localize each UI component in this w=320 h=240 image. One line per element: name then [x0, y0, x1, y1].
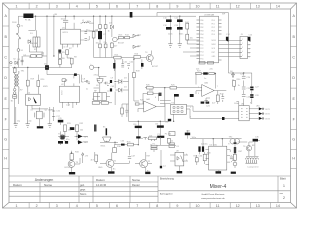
wire U2 bottom stubs	[63, 102, 77, 108]
transistor Q3 circle	[60, 135, 65, 140]
opto U4 led	[29, 97, 31, 101]
wire C-row	[23, 16, 54, 74]
wire amp right pins	[227, 150, 232, 163]
svg-text:PB1: PB1	[200, 23, 203, 25]
capacitor C47	[128, 157, 131, 159]
wire mcu right to connector	[219, 41, 241, 57]
wire U1 right	[81, 31, 99, 40]
wire staircase to U6	[186, 106, 238, 118]
fuse F1 body	[23, 14, 33, 19]
svg-text:4: 4	[249, 53, 250, 55]
svg-text:10: 10	[196, 4, 200, 8]
wire mcu loop rail	[157, 13, 228, 74]
wire rail D	[12, 67, 72, 70]
svg-text:PC2: PC2	[200, 48, 203, 50]
wire mains chain	[17, 16, 19, 67]
connector circle mains a	[17, 24, 20, 27]
resistor R11	[99, 44, 102, 48]
svg-text:10k: 10k	[149, 135, 152, 137]
diode D2	[110, 25, 113, 29]
wire U1 top feeds	[66, 16, 75, 29]
svg-text:10k: 10k	[80, 129, 83, 131]
svg-text:C32: C32	[165, 122, 168, 124]
svg-text:F1 2A: F1 2A	[25, 18, 31, 21]
svg-text:1k: 1k	[108, 31, 110, 33]
dark vbar x95	[94, 125, 97, 132]
svg-text:C: C	[292, 56, 295, 60]
resistor R7	[66, 50, 69, 55]
svg-text:C: C	[4, 56, 7, 60]
svg-text:3: 3	[56, 4, 58, 8]
wire T2	[135, 150, 161, 172]
wire x115 trunk	[115, 60, 118, 105]
svg-text:22u: 22u	[104, 42, 107, 44]
capacitor C42 pair	[127, 64, 130, 69]
capacitor C6	[85, 32, 88, 34]
diode D8	[15, 61, 18, 65]
svg-text:U3 MEGA8: U3 MEGA8	[204, 13, 215, 16]
svg-text:4: 4	[76, 4, 78, 8]
svg-text:100n: 100n	[168, 34, 172, 36]
svg-text:+UB: +UB	[53, 14, 58, 16]
svg-text:5: 5	[96, 4, 98, 8]
wire x93 column	[93, 16, 95, 57]
svg-text:47n: 47n	[66, 139, 69, 141]
svg-text:G: G	[292, 138, 295, 142]
transistor T2	[140, 160, 148, 168]
frame corner chamfers	[3, 3, 297, 208]
filter box G inner	[98, 93, 102, 101]
capacitor C36 body	[198, 146, 200, 151]
dark bar between resistors	[70, 127, 75, 130]
resistor R43	[186, 34, 189, 40]
svg-text:1N4148: 1N4148	[30, 43, 38, 45]
svg-text:14.10.36: 14.10.36	[96, 183, 107, 187]
wire L1	[81, 22, 94, 24]
wire rail F	[129, 105, 170, 126]
svg-text:4: 4	[242, 51, 243, 53]
resistor R30	[233, 81, 236, 87]
svg-text:Auftraggeber: Auftraggeber	[160, 193, 173, 196]
svg-text:1n: 1n	[204, 78, 206, 80]
transformer dark bar	[234, 147, 236, 153]
grid column tick marks bottom	[29, 203, 270, 209]
svg-text:OUT3: OUT3	[265, 118, 270, 120]
svg-text:2: 2	[36, 4, 38, 8]
svg-text:out: out	[163, 165, 166, 168]
svg-text:10: 10	[196, 204, 200, 208]
pot dark bar a	[136, 136, 140, 138]
svg-text:Reuter: Reuter	[132, 183, 140, 187]
svg-text:U5 TDA: U5 TDA	[210, 143, 218, 146]
ic U6 box	[239, 106, 249, 121]
connector fork E4	[133, 45, 139, 48]
svg-text:PC0: PC0	[200, 41, 203, 43]
resistor R28 fb	[209, 72, 214, 74]
diode D1	[28, 40, 31, 44]
wire Q2 stubs	[150, 51, 152, 66]
svg-text:2: 2	[242, 43, 243, 45]
resistor R19	[26, 80, 29, 86]
mcu U3 pin stubs left	[197, 20, 200, 59]
wire elcap E area	[93, 68, 106, 93]
svg-text:6: 6	[116, 4, 118, 8]
svg-text:G: G	[4, 138, 7, 142]
svg-text:Lautsprecher: Lautsprecher	[248, 166, 259, 169]
pot marks	[143, 138, 154, 141]
regulator U1 box	[60, 29, 80, 44]
svg-text:5: 5	[186, 160, 187, 162]
wire x105 column	[105, 16, 107, 57]
dark cap pair x251 b	[250, 94, 253, 96]
svg-text:D: D	[292, 76, 295, 80]
ground sym g3	[48, 124, 52, 127]
resistor R4b	[37, 55, 42, 58]
svg-text:5: 5	[96, 204, 98, 208]
wire cap stems F	[138, 128, 160, 145]
svg-text:6: 6	[116, 204, 118, 208]
resistor R13 h	[118, 36, 123, 38]
svg-text:PD1: PD1	[212, 23, 215, 25]
capacitor C5	[85, 39, 88, 41]
wire speaker stems	[235, 156, 248, 168]
svg-text:22k: 22k	[196, 69, 199, 71]
capacitor C23 plate	[174, 94, 179, 97]
capacitor C31 plate	[157, 125, 164, 127]
resistor R31	[63, 125, 66, 131]
signal arrow S1	[78, 134, 83, 138]
capacitor C17 h	[52, 116, 55, 118]
capacitor C7 body	[98, 31, 102, 39]
svg-text:2: 2	[198, 87, 199, 89]
svg-text:PC4: PC4	[200, 55, 203, 57]
svg-text:Tr: Tr	[228, 144, 230, 146]
svg-text:PB0: PB0	[200, 20, 203, 22]
svg-text:PD2: PD2	[212, 27, 215, 29]
switch circles	[17, 33, 18, 34]
op-amp OA1	[144, 101, 157, 112]
svg-text:11: 11	[216, 4, 220, 8]
dark bar x58 top	[58, 120, 64, 123]
wire resistor row under box	[92, 102, 112, 104]
svg-text:7: 7	[136, 4, 138, 8]
svg-text:2: 2	[249, 45, 250, 47]
ic U6 inner marks	[241, 109, 248, 117]
TR2 arrow	[234, 142, 237, 144]
capacitor C2	[63, 20, 68, 22]
svg-text:D: D	[4, 76, 7, 80]
wire opto bottom	[28, 105, 48, 123]
dark blob x161	[160, 166, 162, 169]
svg-text:1: 1	[249, 41, 250, 43]
svg-text:Q1 16MHz: Q1 16MHz	[45, 110, 55, 112]
svg-text:PB4: PB4	[200, 34, 203, 36]
wire T3	[72, 151, 97, 172]
transistor Q2 innards	[148, 56, 151, 61]
wire cap cluster feeds	[170, 16, 179, 44]
led arrow A1	[259, 107, 262, 110]
capacitor C20 plate	[203, 72, 208, 74]
connector fork E3	[133, 34, 139, 37]
resistor R41 h	[92, 102, 99, 105]
capacitor C35 plate	[253, 139, 258, 142]
transistor Q1	[113, 37, 118, 42]
wire U1 bottom stubs	[62, 44, 77, 49]
opto U8 box	[175, 152, 184, 166]
wire U1 resistor column	[60, 55, 72, 68]
transformer TR2 a	[230, 139, 235, 144]
wire opamp1	[134, 88, 165, 112]
wire crystal area	[16, 105, 54, 126]
wire mic1	[100, 141, 138, 145]
ground bar speaker	[231, 172, 236, 174]
svg-text:3: 3	[56, 204, 58, 208]
svg-text:2: 2	[283, 196, 285, 200]
svg-text:1 2 3: 1 2 3	[66, 105, 70, 107]
transistor T1 innards	[108, 160, 111, 166]
svg-text:2x100u: 2x100u	[201, 143, 208, 145]
svg-text:7: 7	[136, 204, 138, 208]
svg-text:2x: 2x	[86, 89, 88, 91]
svg-text:RST: RST	[212, 52, 215, 54]
svg-text:470u: 470u	[94, 75, 98, 77]
svg-text:9: 9	[176, 4, 178, 8]
wire below-rail caps	[114, 59, 142, 101]
capacitor C34 plate	[185, 133, 190, 136]
connector J3 box	[240, 37, 248, 59]
wire mic trapezoid D	[97, 81, 110, 84]
diode bridge marks	[13, 95, 17, 98]
svg-text:Name: Name	[132, 178, 140, 182]
title block texts	[13, 177, 286, 201]
svg-text:PC1: PC1	[200, 44, 203, 46]
out circles U6	[262, 108, 264, 110]
wire amp rail	[190, 139, 242, 147]
connector circle C	[10, 62, 12, 64]
svg-text:1: 1	[283, 184, 285, 188]
capacitor C22 plate	[190, 94, 194, 97]
svg-text:GmbH Praxis Electronic: GmbH Praxis Electronic	[201, 193, 225, 196]
svg-text:22k: 22k	[210, 69, 213, 71]
svg-text:1: 1	[16, 204, 18, 208]
svg-text:MOSI: MOSI	[212, 40, 217, 42]
transistor Q4	[246, 146, 251, 151]
svg-text:22p: 22p	[17, 121, 20, 123]
svg-text:BC547: BC547	[118, 42, 125, 44]
svg-text:2: 2	[190, 116, 191, 118]
wire relay G box	[160, 96, 174, 121]
capacitor C32 plate	[168, 119, 171, 122]
transformer TR2 b	[234, 139, 239, 144]
resistor R29	[216, 95, 219, 102]
resistor R32	[75, 125, 78, 131]
resistor R25 series	[170, 86, 177, 89]
regulator U2 box	[60, 86, 80, 102]
wire transformer chain	[14, 73, 16, 124]
capacitor C13 plate	[177, 27, 183, 30]
capacitor C45 pair	[242, 87, 246, 89]
svg-text:100n: 100n	[61, 18, 65, 20]
capacitor C46 pair	[242, 95, 246, 99]
wire opamp2 out	[206, 91, 226, 105]
svg-text:13: 13	[256, 4, 260, 8]
svg-text:Datum: Datum	[13, 183, 22, 187]
transistor T3	[68, 161, 75, 168]
wire connector right stubs	[248, 41, 251, 57]
amp U5 box	[209, 146, 227, 170]
svg-text:Blatt: Blatt	[280, 177, 286, 181]
capacitor C37 body	[202, 146, 204, 151]
svg-text:8: 8	[156, 4, 158, 8]
resistor R50	[13, 68, 16, 73]
inductor L1	[82, 22, 89, 23]
capacitor C40 h	[104, 82, 109, 86]
relay G inner marks	[173, 107, 183, 113]
svg-text:8: 8	[156, 204, 158, 208]
resistor R42 h	[101, 102, 108, 105]
wire opto2 U8	[170, 130, 188, 171]
svg-text:BC547: BC547	[65, 167, 72, 169]
wire T1	[100, 144, 130, 171]
pot body	[148, 137, 156, 140]
transistor Q2	[146, 55, 153, 62]
T3 resistor	[70, 154, 73, 160]
dark bar below rail x141	[141, 63, 144, 67]
resistor R9	[92, 32, 95, 38]
dark bar below rail x114	[113, 63, 115, 69]
svg-text:230V: 230V	[12, 22, 17, 24]
svg-text:OUT2: OUT2	[265, 114, 270, 116]
title block lines	[9, 176, 291, 203]
wire pot cluster	[141, 138, 176, 152]
svg-text:14: 14	[276, 204, 280, 208]
ground bar opto2	[177, 171, 183, 173]
capacitor C30 plate	[135, 126, 142, 128]
svg-text:9: 9	[176, 204, 178, 208]
svg-text:www.praxiselectronic.de: www.praxiselectronic.de	[201, 197, 225, 200]
jumper label b	[208, 62, 214, 65]
resistor R10	[99, 25, 102, 29]
dark bar mic line	[121, 144, 125, 146]
svg-text:P2: P2	[153, 143, 155, 145]
label rects K3	[169, 143, 175, 145]
diode D4	[119, 88, 122, 92]
transformer TR1 right winding	[18, 71, 19, 92]
svg-text:100n: 100n	[179, 34, 183, 36]
svg-text:10k: 10k	[190, 38, 193, 40]
wire arrow branch	[233, 73, 234, 90]
svg-text:3: 3	[242, 47, 243, 49]
relay K1 coil	[35, 37, 37, 47]
wire top supply rail	[18, 15, 196, 17]
wire Q1 links	[117, 38, 133, 40]
grid row letters left	[4, 14, 7, 161]
wire opamp2 fb	[196, 74, 216, 89]
grid column numbers bottom	[16, 204, 280, 208]
resistor R46	[195, 158, 198, 162]
mcu U3 box	[200, 16, 219, 63]
ground sym g1	[14, 124, 18, 127]
resistor R16 series	[134, 56, 141, 59]
transformer TR1 left winding	[14, 74, 15, 88]
ground bar T1	[108, 171, 115, 173]
box K4	[169, 132, 175, 136]
mic1 arrow	[106, 128, 108, 135]
polarized cap arrow E2	[248, 37, 251, 42]
resistor R38	[167, 138, 170, 143]
svg-text:K3: K3	[177, 146, 179, 148]
wire right rail y73	[228, 72, 252, 74]
wire x111 column	[111, 16, 113, 57]
opto U4 transistor stroke	[33, 97, 37, 104]
svg-text:GND: GND	[98, 167, 103, 169]
resistor R48	[133, 73, 136, 78]
opto U4 box	[26, 94, 41, 105]
wire oa1-oa2 trunk	[145, 88, 202, 94]
ground sym g5	[178, 44, 182, 47]
svg-text:100n: 100n	[234, 103, 238, 105]
dark transistor cluster	[61, 135, 65, 139]
svg-text:PC3: PC3	[200, 51, 203, 53]
resistor R49	[121, 108, 124, 114]
svg-text:4: 4	[76, 204, 78, 208]
wire rail C audio	[94, 57, 147, 59]
resistor R5	[59, 53, 62, 58]
switch S1	[17, 34, 19, 39]
transistor T2 innards	[142, 161, 145, 167]
wire U2 top	[65, 75, 74, 87]
svg-text:LM2574: LM2574	[62, 32, 68, 34]
resistor R24	[135, 103, 139, 105]
grid column numbers top	[16, 4, 280, 8]
svg-text:11: 11	[216, 204, 220, 208]
resistor R12	[111, 43, 114, 48]
grid row tick marks right	[291, 26, 297, 169]
resistor R14 h	[125, 36, 130, 38]
svg-text:1: 1	[242, 39, 243, 41]
svg-text:OUT1: OUT1	[265, 109, 270, 111]
svg-text:PB2: PB2	[200, 27, 203, 29]
svg-text:Änderungen: Änderungen	[35, 178, 54, 182]
capacitor C16 h	[52, 111, 55, 113]
resistor R15 series	[114, 56, 121, 59]
speaker LS1 teeth	[245, 160, 257, 163]
resistor R36	[113, 148, 117, 153]
svg-text:PD4: PD4	[212, 34, 215, 36]
wire transformer block	[235, 139, 260, 162]
resistor R27 fb	[196, 72, 201, 74]
capacitor C1	[21, 56, 24, 65]
svg-text:10k: 10k	[68, 129, 71, 131]
capacitor C11 plate	[177, 19, 183, 22]
capacitor C49	[125, 110, 128, 112]
microphone M1	[103, 137, 112, 142]
svg-text:1: 1	[190, 107, 191, 109]
speaker LS1 coil	[245, 158, 258, 160]
diode D6 down arrow	[231, 74, 235, 77]
connector circle E b	[13, 92, 16, 95]
cap C4 blob	[58, 50, 61, 53]
cap plate pair a x110	[110, 80, 112, 83]
wire mcu left pin wires	[183, 40, 200, 56]
crystal marks above U2	[62, 79, 67, 82]
svg-text:47u: 47u	[86, 29, 89, 31]
svg-text:5: 5	[249, 57, 250, 59]
svg-text:gepr.: gepr.	[80, 188, 86, 192]
label rects P2	[151, 145, 157, 147]
svg-text:MISO: MISO	[212, 44, 217, 46]
svg-text:3: 3	[198, 93, 199, 95]
